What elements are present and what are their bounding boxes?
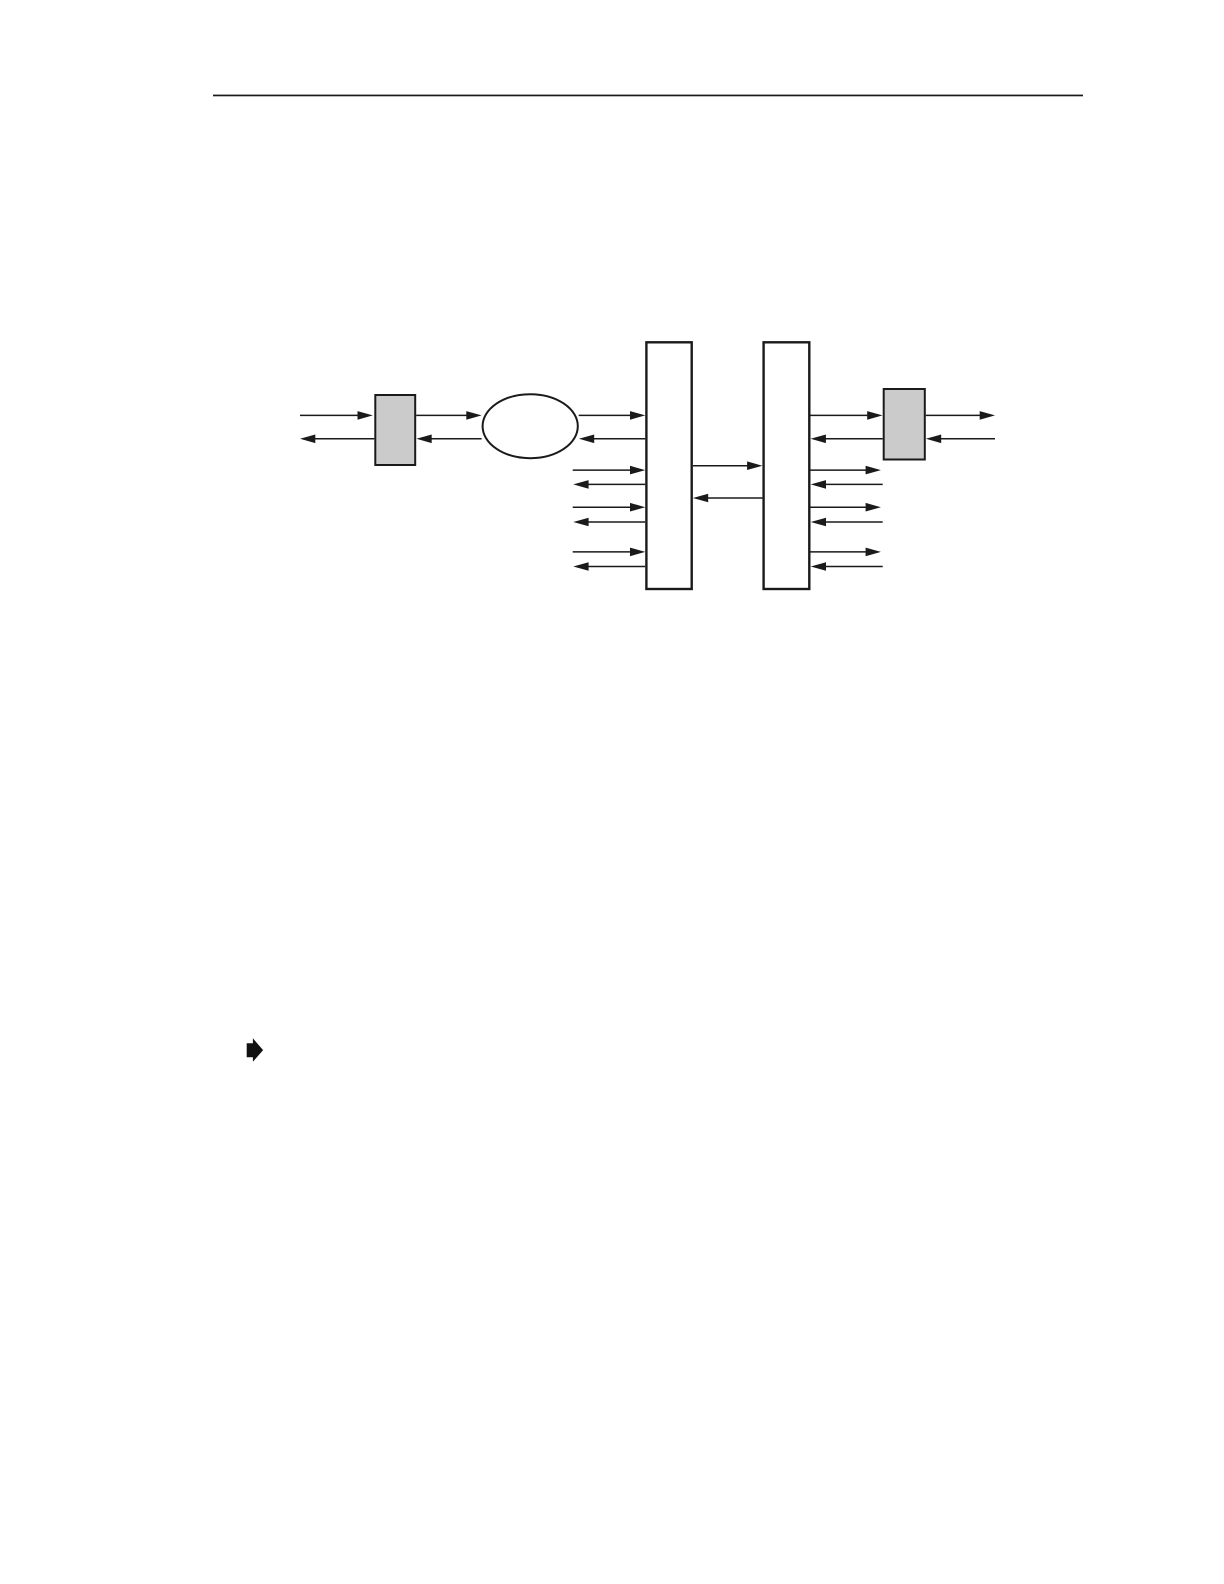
wire: left-side row 5 arrow into left tall block: [573, 503, 646, 512]
wire: right-side row 4 arrow into right tall block: [811, 480, 883, 489]
wire: left-side row 3 arrow into left tall block: [573, 466, 646, 475]
wire: right-side row 6 arrow into right tall block: [811, 518, 883, 527]
wire: right-side row 5 arrow out of right tall block: [811, 503, 881, 512]
wire: output arrow from left gray box (row 2): [300, 435, 374, 444]
wire: right gray box to right tall block (row 2): [811, 435, 883, 444]
block: left gray box: [375, 395, 415, 465]
header rule: [213, 95, 1083, 97]
wire: left-side row 4 arrow out of left tall block: [573, 480, 645, 489]
wire: right-side row 7 arrow out of right tall block: [811, 548, 881, 557]
wire: input arrow into left gray box (row 1): [300, 411, 373, 420]
wire: ellipse to left tall block (row 1): [579, 411, 646, 420]
wire: left tall block to ellipse (row 2): [579, 435, 645, 444]
wire: left-side row 7 arrow into left tall block: [573, 548, 646, 557]
wire: right-side row 8 arrow into right tall block: [811, 562, 883, 571]
wire: input arrow into right gray box (row 2): [926, 435, 995, 444]
block: right tall rectangle: [764, 342, 810, 589]
wire: left gray box to ellipse (row 1): [416, 411, 481, 420]
wire: right tall block to left tall block (middle left arrow): [693, 494, 763, 503]
wire: right-side row 3 arrow out of right tall block: [811, 466, 881, 475]
note bullet: black arrow icon: [247, 1038, 263, 1062]
block: right gray box: [884, 389, 925, 460]
wire: ellipse to left gray box (row 2): [416, 435, 481, 444]
block: left tall rectangle: [646, 342, 691, 589]
wire: output arrow from right gray box (row 1): [926, 411, 995, 420]
wire: left-side row 6 arrow out of left tall block: [573, 518, 645, 527]
wire: left-side row 8 arrow out of left tall block: [573, 562, 645, 571]
node: ellipse (line circle): [483, 394, 578, 458]
wire: left tall block to right tall block (middle right arrow): [693, 461, 763, 470]
wire: right tall block to right gray box (row 1): [811, 411, 883, 420]
